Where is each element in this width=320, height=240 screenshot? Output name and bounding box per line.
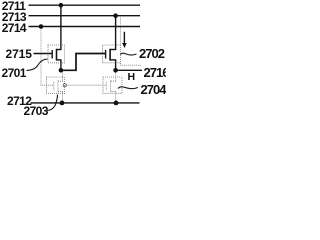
dotted phantom drain feed lower segment (119, 63, 121, 65)
dotted gate feed from line 2714 to phantom transistor 2703 (41, 29, 54, 86)
transistor Q2702 (106, 49, 117, 61)
transistor Q2701 (52, 49, 61, 61)
leader squiggle for label 2702 (121, 53, 137, 55)
leader squiggle for label 2704 (118, 87, 138, 89)
dotted phantom drain feed from line 2713 for 2704 (119, 18, 121, 45)
junction dot on line 2712 below 2703 (60, 101, 65, 106)
label 2715 (6, 48, 32, 60)
label 2703 (24, 105, 48, 117)
leader curve for label 2703 (47, 95, 58, 111)
leader curve for label 2701 (27, 59, 48, 71)
phantom transistor 2703 (dotted) (54, 72, 63, 103)
junction dot on line 2712 below 2704 (114, 101, 119, 106)
wire node A to gate of Q2702 (61, 54, 106, 71)
wire source lead of Q2702 to node H (115, 60, 117, 70)
wire drain lead of Q2701 to line 2711 (60, 5, 62, 49)
junction dot on line 2713 at drain of Q2702 (113, 13, 118, 18)
dotted node circle on box edge of 2703 (63, 84, 66, 87)
label 2702 (139, 47, 164, 60)
dotted enclosure box around phantom transistor 2703 (47, 77, 65, 93)
junction dot node H (113, 68, 118, 73)
dotted wire from 2703 to gate of phantom transistor 2704 (67, 84, 107, 86)
label 2714 (2, 22, 26, 34)
junction dot on line 2714 at x41 (39, 24, 44, 29)
label 2704 (141, 83, 166, 96)
dotted enclosure box around Q2701 (48, 45, 65, 63)
wire line 2713 (29, 15, 141, 17)
wire gate lead 2715 to Q2701 (34, 53, 53, 55)
wire line 2712 (31, 102, 140, 104)
current direction arrow (122, 32, 127, 48)
label 2716 (144, 66, 169, 79)
wire line 2714 (29, 26, 141, 28)
wire output stub node H to terminal 2716 (116, 69, 142, 71)
label 2713 (2, 11, 26, 23)
junction dot on line 2711 at drain of Q2701 (59, 3, 64, 8)
phantom transistor 2704 (dotted) (106, 73, 116, 103)
junction dot node A (59, 68, 64, 73)
wire drain lead of Q2702 to line 2713 (115, 16, 117, 50)
dotted phantom output stub to 2716 (120, 64, 141, 66)
wire line 2711 (29, 4, 141, 6)
label 2711 (2, 0, 26, 12)
dotted enclosure box around phantom transistor 2704 (103, 77, 122, 93)
wire source lead of Q2701 to node A (60, 60, 62, 70)
dotted enclosure box around Q2702 (103, 45, 121, 63)
label node H (128, 72, 135, 83)
label 2701 (2, 67, 26, 79)
label 2712 (7, 95, 31, 107)
